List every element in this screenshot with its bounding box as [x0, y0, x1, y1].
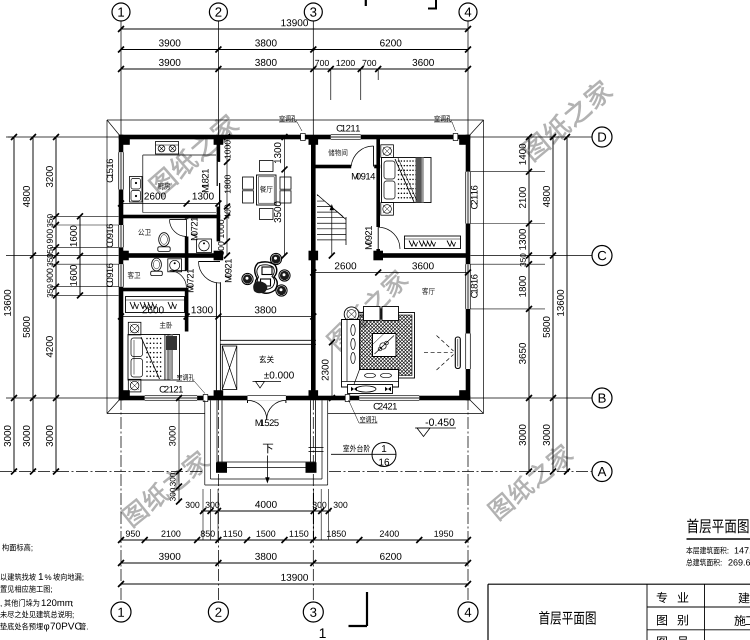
bottom dimension row total 13900 [121, 583, 468, 585]
kitchen counter and sink [130, 177, 143, 203]
section mark flag top right [435, 0, 437, 10]
AC hole bottom wall left [203, 395, 208, 402]
detail reference bubble 1/16 [372, 443, 396, 467]
wall exterior right axis 4 [466, 135, 471, 401]
entrance double door M1525 [248, 400, 267, 419]
AC hole top wall left [301, 134, 306, 141]
storage room label [328, 149, 334, 156]
top dimension row total 13900 [121, 28, 468, 30]
watermark 3 [520, 77, 615, 162]
window C1211 top wall [331, 135, 361, 140]
window C2121 bottom wall [145, 396, 197, 401]
axis bubble 1 top [112, 3, 130, 21]
bedroom2 nightstand lower with lamp [381, 203, 394, 216]
wall exterior left axis 1 [119, 135, 124, 401]
axis bubble 4 top [459, 3, 477, 21]
window C1816 right wall [466, 264, 471, 309]
bottom dimension row 950 2100 850 1150 1500 1150 1850 2400 1950 [121, 539, 468, 541]
wall master bedroom east [185, 292, 189, 332]
living room plant circle [344, 307, 359, 322]
sliding door M1821 kitchen [216, 162, 218, 186]
guest bathroom toilet [152, 258, 162, 271]
porch columns [216, 462, 227, 473]
sliding door dashed opening indicator [424, 352, 453, 354]
watermark 1 [147, 111, 241, 197]
porch down label and arrow [263, 444, 273, 454]
door M0721 guest bathroom [170, 271, 187, 288]
living room label [422, 288, 428, 295]
master bedroom label [160, 322, 166, 329]
grid line B horizontal [6, 397, 119, 399]
master bedroom lamp upper [128, 322, 141, 335]
top dimension row 3900 3800 6200 [121, 49, 468, 51]
dining table [257, 175, 277, 205]
level mark -0.450 [426, 422, 429, 425]
right dimension chain 4800 5800 3000 [552, 137, 554, 472]
general notes bottom left [2, 544, 9, 552]
staircase right edge [345, 217, 347, 245]
entry level mark 0.000 [264, 373, 269, 379]
grid line 3 vertical [312, 21, 314, 137]
grid line A horizontal [0, 471, 204, 473]
interior dimension 3000 and step 300 300 left of porch [178, 398, 180, 503]
interior dimension 2600 1300 3800 [121, 316, 313, 318]
dining chairs [260, 161, 274, 172]
left dimension chain detail [55, 137, 57, 472]
bottom dimension row porch 300 300 4000 300 300 [201, 510, 331, 512]
wall exterior bottom axis B [119, 396, 471, 401]
left dimension chain 4800 5800 3000 [32, 137, 34, 472]
public bathroom toilet [159, 233, 170, 247]
axis bubble A right [592, 462, 612, 482]
title block category row [657, 615, 667, 626]
public bathroom label [138, 229, 144, 236]
kitchen stove [156, 142, 179, 155]
top dimension row 3900 3800 700 1200 700 3600 [121, 68, 468, 70]
watermark 5 [486, 441, 575, 521]
staircase treads [317, 195, 346, 197]
guest bathroom washbasin [168, 259, 182, 272]
interior dimension 2600 3600 living [313, 272, 468, 274]
window C0916 lower left wall [119, 264, 124, 287]
AC hole label bottom left [177, 374, 182, 380]
wall exterior top axis D [119, 135, 471, 140]
wall master bedroom north [121, 288, 188, 292]
title block number row [657, 636, 667, 640]
title block specialty row [657, 592, 667, 603]
door M0914 storage [373, 146, 375, 167]
wall hall west axis 2 [217, 217, 221, 242]
wall entry north [221, 340, 317, 344]
sliding door panel [455, 337, 460, 369]
wall storage south [311, 165, 351, 169]
kitchen counter front edge [143, 154, 216, 156]
dining label [260, 186, 266, 193]
interior dimension 1300 3500 dining [284, 137, 286, 256]
right dimension chain detail [528, 137, 530, 472]
sheet title top right [687, 518, 698, 533]
wall axis 3 vertical [311, 137, 316, 398]
AC hole label top right [435, 115, 440, 121]
bedroom2 bed [382, 158, 432, 203]
window C0916 upper left wall [119, 225, 124, 247]
wall kitchen east on axis 2 [217, 137, 221, 162]
outdoor steps label [343, 445, 349, 452]
lobby washbasin [197, 239, 212, 253]
roof overhang outline [107, 119, 484, 121]
right dimension chain outer 13600 [566, 137, 568, 472]
watermark 2 [325, 267, 411, 352]
master bedroom wardrobe [126, 297, 185, 313]
grid line 1 vertical [120, 21, 122, 137]
columns at grid intersections [120, 135, 130, 145]
grid line 2 vertical [217, 21, 219, 137]
porch side curbs [216, 400, 218, 467]
AC hole label top left [280, 115, 285, 121]
title block drawing name [539, 611, 549, 625]
wall C axis bathrooms [121, 253, 221, 258]
entrance door opening M1525 [248, 396, 286, 401]
kitchen label [158, 183, 164, 190]
floor area note 2 [686, 559, 692, 566]
living room coffee table [373, 334, 397, 357]
staircase direction arrow [331, 206, 333, 257]
axis bubble 4 bottom [458, 602, 478, 622]
top extension lines [330, 70, 332, 101]
bedroom2 nightstand upper with lamp [381, 145, 394, 158]
living room TV cabinet [348, 385, 393, 394]
axis bubble 1 bottom [111, 602, 131, 622]
junction dot grid 3 on dimension line [312, 48, 315, 51]
sliding door opening right wall living room [466, 334, 471, 370]
living room side table between armchairs [380, 309, 383, 320]
living room armchair upper 1 [364, 307, 381, 321]
left dimension chain windows 1600 1600 [79, 216, 81, 295]
grid line 4 vertical [467, 21, 469, 137]
porch bottom curb [217, 461, 316, 463]
right extension lines [471, 171, 546, 173]
living room sofa L-shape [342, 320, 399, 388]
interior dimension chain kitchen east [226, 137, 228, 256]
wall bedroom2 west [376, 137, 380, 227]
overhang corner diagonals [107, 120, 121, 137]
wall bedroom2 south axis C [378, 253, 468, 258]
staircase break lines [317, 195, 346, 220]
kitchen interior dimension 2600 1300 [121, 203, 218, 205]
axis bubble 2 top [209, 3, 227, 21]
porch steps outline [210, 400, 212, 479]
wall bathrooms east [185, 218, 189, 221]
living room armchair upper 2 [382, 307, 399, 321]
master bedroom bed [128, 335, 180, 381]
axis bubble 3 top [304, 3, 322, 21]
section mark 1 top [365, 0, 367, 6]
axis bubble 2 bottom [208, 602, 228, 622]
floor area note 1 [686, 547, 692, 555]
AC hole bottom wall right [345, 395, 350, 402]
staircase upper flight cut [317, 194, 346, 219]
flue duct [222, 346, 237, 390]
AC hole top wall right [453, 134, 458, 141]
axis bubble B right [592, 388, 612, 408]
wall kitchen south [121, 215, 220, 219]
door M0921 bedroom2 [378, 227, 400, 249]
AC hole label bottom right [360, 416, 365, 422]
living room carpet [358, 313, 415, 379]
left extension lines [50, 215, 119, 217]
title block table [488, 583, 750, 585]
left dimension chain outer 13600 [13, 137, 15, 472]
axis bubble C right [592, 246, 612, 266]
grid line C horizontal [6, 255, 119, 257]
window C2421 bottom wall [359, 396, 419, 401]
grid line D horizontal [6, 136, 119, 138]
interior dimension 2300 entry [331, 342, 333, 398]
watermark 4 [120, 448, 212, 529]
window C1516 left wall [119, 152, 124, 189]
section mark 1 bottom [366, 592, 368, 626]
door M0921 hallway [199, 262, 221, 284]
master bedroom lamp lower [128, 379, 141, 392]
bottom dimension row 3900 3800 6200 [121, 562, 468, 564]
guest bathroom label [128, 272, 134, 279]
entry label [259, 355, 266, 363]
hall plant decoration [255, 262, 278, 293]
door M0721 public bathroom [186, 219, 188, 236]
outdoor step mark [309, 447, 324, 449]
axis bubble D right [592, 127, 612, 147]
window C2116 right wall [466, 172, 471, 224]
bedroom2 wardrobe [405, 236, 461, 249]
axis bubble 3 bottom [303, 602, 323, 622]
